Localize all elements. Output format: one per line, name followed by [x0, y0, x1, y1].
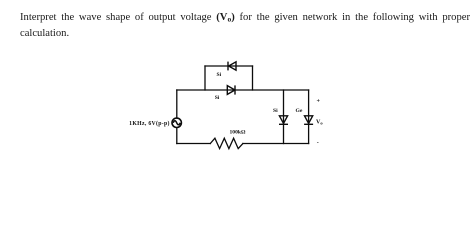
ac source V1 sine wave [173, 121, 180, 125]
svg-text:+: + [317, 98, 321, 104]
diode D1 Si (top loop, pointing left) [228, 62, 236, 71]
wire: bypass loop right vertical [252, 66, 254, 90]
svg-text:1KHz, 6V(p-p): 1KHz, 6V(p-p) [129, 120, 170, 127]
wire: bypass loop top horizontal [205, 65, 253, 67]
diode D2 Si (main line, pointing right) [227, 85, 235, 94]
wire: bottom horizontal left of resistor [177, 143, 211, 145]
wire: Ge branch vertical [308, 90, 310, 144]
svg-text:Si: Si [215, 95, 220, 101]
wire: bottom horizontal right of resistor [243, 143, 309, 145]
svg-text:Si: Si [273, 108, 278, 114]
svg-text:Si: Si [217, 72, 222, 78]
wire: left vertical above source [176, 90, 178, 117]
svg-text:-: - [317, 140, 319, 146]
svg-text:Vo: Vo [316, 120, 323, 126]
wire: main horizontal line [177, 89, 309, 91]
wire: bypass loop left vertical [204, 66, 206, 90]
wire: left vertical below source [176, 128, 178, 143]
wire: Si branch vertical [283, 90, 285, 144]
svg-text:100kΩ: 100kΩ [230, 130, 247, 136]
ac source V1 circle [172, 118, 181, 127]
diode D4 Ge (rightmost branch, pointing down) [304, 116, 313, 125]
svg-text:Ge: Ge [296, 108, 303, 114]
resistor 100kΩ [210, 138, 243, 148]
diode D3 Si (right branch, pointing down) [279, 116, 288, 125]
